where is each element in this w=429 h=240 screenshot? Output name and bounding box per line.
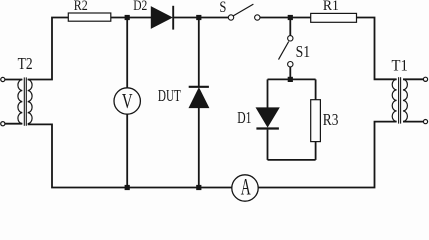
wire bottom rail from ammeter to T2 secondary bottom (28, 124, 232, 187)
ammeter A (232, 175, 258, 201)
wire T2 secondary top to R2 (28, 18, 69, 80)
svg-text:A: A (241, 175, 251, 201)
junction node after R2 (125, 15, 130, 20)
wire junction to switch S1 (289, 18, 291, 36)
wire T1 primary bottom to bottom rail (258, 122, 396, 188)
switch S (228, 4, 260, 20)
wire V branch bottom (126, 114, 128, 187)
wire D1 cathode to bottom bar (267, 130, 269, 160)
wire D2 to switch S (174, 17, 228, 19)
svg-text:V: V (122, 91, 133, 113)
transformer T1 (392, 77, 427, 124)
wire DUT branch top (198, 18, 200, 88)
junction node DUT branch bottom (196, 185, 201, 190)
switch S1 (279, 36, 293, 67)
wire S to R1 (260, 17, 311, 19)
transformer T2 (1, 77, 32, 125)
thyristor DUT (189, 87, 209, 108)
resistor R3 (311, 100, 321, 142)
voltmeter V (114, 88, 140, 114)
svg-text:R1: R1 (323, 0, 339, 14)
svg-text:R3: R3 (323, 110, 339, 129)
wire top bar to R3 (315, 79, 317, 99)
svg-text:T1: T1 (392, 58, 408, 75)
wire R1 to T1 primary top (357, 18, 397, 80)
svg-text:D2: D2 (133, 0, 147, 14)
diode D2 (151, 6, 173, 30)
junction node S1 branch top (288, 15, 293, 20)
wire D1/R3 block bottom bar (268, 159, 316, 161)
wire D1/R3 block top bar (268, 78, 316, 80)
junction node block top (288, 77, 293, 82)
svg-text:S: S (219, 0, 226, 16)
wire R3 to bottom bar (315, 142, 317, 160)
diode D1 (256, 108, 279, 129)
resistor R2 (68, 13, 111, 21)
wire top bar to D1 anode (267, 79, 269, 108)
svg-text:T2: T2 (18, 54, 33, 73)
svg-text:DUT: DUT (158, 86, 181, 105)
wire V branch top (126, 18, 128, 88)
junction node V branch bottom (125, 185, 130, 190)
junction node DUT branch top (196, 15, 201, 20)
wire R2 to D2 (111, 17, 151, 19)
resistor R1 (311, 13, 357, 22)
svg-text:R2: R2 (74, 0, 88, 14)
svg-text:S1: S1 (296, 42, 311, 61)
svg-text:D1: D1 (237, 108, 251, 127)
wire DUT branch bottom (198, 108, 200, 188)
wire S1 to D1/R3 block (289, 67, 291, 79)
